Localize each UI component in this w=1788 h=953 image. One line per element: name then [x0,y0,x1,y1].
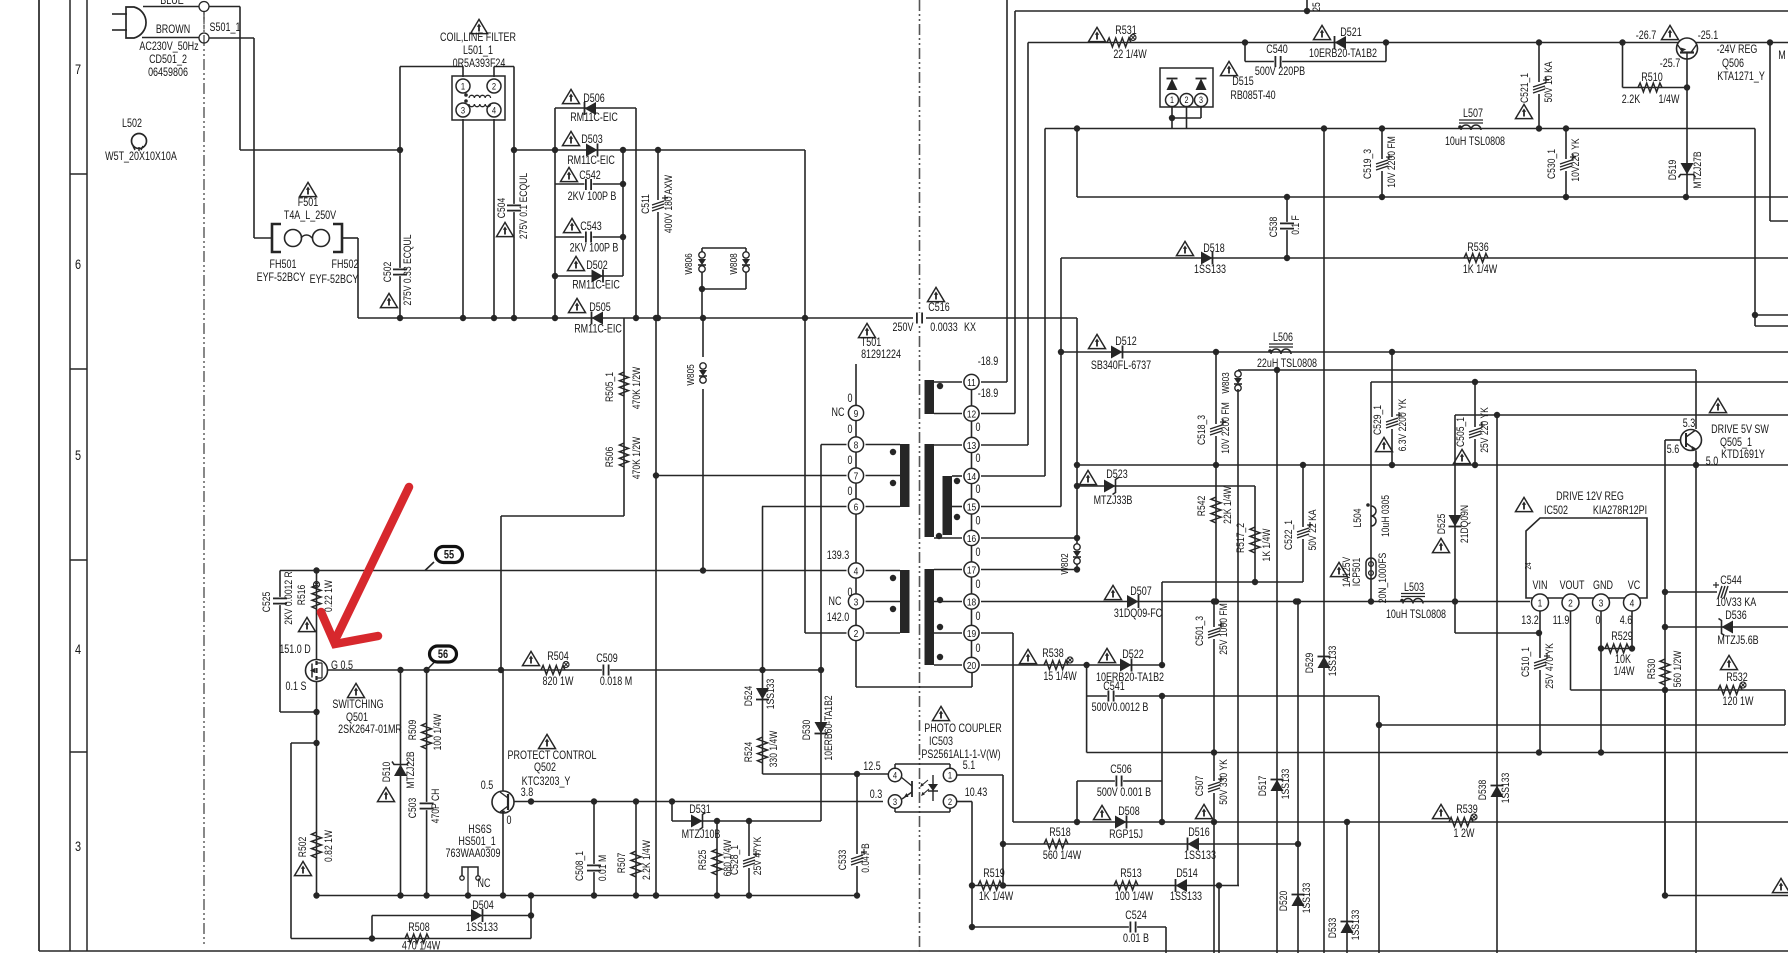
svg-text:W803: W803 [1219,372,1231,393]
svg-text:C528_1: C528_1 [729,845,741,875]
diode D506 [585,102,597,115]
transformer T501 secondary pin 15 [964,499,979,514]
svg-text:D525: D525 [1436,513,1448,534]
wire pin2 to pin20 link [856,686,972,688]
wire C538 column [1286,197,1288,258]
label 500V 220PB [1255,66,1305,78]
svg-text:2SK2647-01MR: 2SK2647-01MR [338,724,402,736]
wire W802 column [1076,318,1078,545]
wire GND column [1600,611,1602,753]
label AC230V_50Hz [139,41,198,53]
junction [1074,535,1080,541]
junction [653,892,659,898]
svg-text:R518: R518 [1049,827,1071,839]
junction [1389,462,1395,468]
svg-text:R502: R502 [297,837,309,858]
svg-text:D520: D520 [1278,890,1290,911]
wire AC bottom rail [358,317,400,319]
label Q501 [346,712,368,724]
plug prong [112,29,127,31]
junction [714,818,720,824]
svg-text:1K 1/4W: 1K 1/4W [979,891,1014,903]
svg-text:4: 4 [893,770,897,781]
label C533 [837,849,849,870]
svg-text:25: 25 [1311,2,1323,12]
label L503 [1404,582,1424,594]
fusible mark R504 [563,662,569,668]
label 25 (cut) [1311,2,1323,12]
label 10K [1615,654,1631,666]
label D505 [589,302,611,314]
label L507 [1463,108,1483,120]
junction [1619,39,1625,45]
svg-text:FH501: FH501 [270,259,297,271]
svg-text:D519: D519 [1667,159,1679,180]
wire bus y382 [1371,381,1788,383]
label BLUE [160,0,184,7]
wire top stub [1306,0,1308,11]
junction [1379,125,1385,131]
IC503 LED [921,775,938,801]
svg-text:C509: C509 [596,653,618,665]
wire C541 left leg [1086,665,1088,753]
label R524 [743,741,755,762]
svg-text:50V 330 YK: 50V 330 YK [1218,759,1230,805]
wire pin17 net [981,569,1077,571]
label 0 [507,815,512,827]
warning mark F501 [300,182,317,196]
junction [759,667,765,673]
capacitor C504 [507,204,521,212]
svg-text:C508_1: C508_1 [574,851,586,881]
label FH501 [270,259,297,271]
wire C519_3 column [1381,129,1383,198]
bridge pin 1 [1166,94,1179,107]
svg-text:3.8: 3.8 [521,787,534,799]
warning mark R539 [1433,804,1450,818]
svg-text:R516: R516 [296,584,308,605]
label C504 [496,197,508,218]
junction [1074,566,1080,572]
label 0.1 F [1290,215,1302,235]
label R517_2 [1235,523,1247,553]
junction [1662,624,1668,630]
wire W802 column [1076,563,1078,570]
svg-text:15: 15 [967,501,976,513]
wire pin8/D530 column [820,445,822,701]
label R505_1 [604,372,616,402]
svg-text:W808: W808 [727,253,739,274]
wire bus y258 [1061,257,1788,259]
svg-text:C506: C506 [1110,764,1132,776]
junction [1159,693,1165,699]
svg-text:25V 47YK: 25V 47YK [752,836,764,875]
label 0.01 B [1123,933,1149,945]
wire C530_1 column [1565,129,1567,198]
svg-text:Q502: Q502 [534,762,556,774]
label L501_1 [463,45,493,57]
label KTC3203_Y [522,776,571,788]
junction [591,892,597,898]
junction [969,882,975,888]
wire pin20 to winding [934,664,962,666]
wire R510 left leg [1622,43,1624,88]
label R542 [1196,496,1208,517]
junction [528,912,534,918]
label 10.43 [965,787,988,799]
AC plug CD501_2 [126,7,146,38]
wire pin19 column [1012,633,1014,822]
svg-text:COIL,LINE FILTER: COIL,LINE FILTER [440,32,516,44]
wire Q505 base link [1665,439,1681,441]
svg-text:S501_1: S501_1 [210,22,241,34]
label 5.3 [1683,418,1696,430]
label RM11C-EIC [572,280,620,292]
label 2SK2647-01MR [338,724,402,736]
transformer T501 secondary pin 12 [964,406,979,421]
svg-text:Q506: Q506 [1722,58,1744,70]
label D520 [1278,890,1290,911]
warning mark D507 [1105,585,1122,599]
frame row divider [70,559,87,561]
wire W806 box bottom [702,288,746,290]
svg-text:10V 2200 FM: 10V 2200 FM [1220,402,1232,453]
svg-text:ICP501: ICP501 [1351,558,1363,587]
label EYF-52BCY [310,274,359,286]
diode D505 [592,312,604,325]
junction [1159,819,1165,825]
junction [1295,598,1301,604]
wire pin2 to winding [866,632,901,634]
wire pin12 net [981,413,1015,415]
wire AC rail top [240,149,400,151]
wire R502 column [316,743,318,896]
jumper W805 [699,363,707,383]
svg-text:R505_1: R505_1 [604,372,616,402]
transformer T501 primary pin 7 [848,468,863,483]
T501 primary winding bar [900,570,910,633]
wire C540 right leg [1385,43,1387,62]
label 81291224 [861,349,901,361]
wire bus y197 [1077,196,1788,198]
label R502 [297,837,309,858]
svg-text:3: 3 [854,596,859,608]
label D536 [1725,610,1747,622]
wire pin2 net [805,632,847,634]
wire VIN column [1539,611,1541,753]
wire W803 column top [1237,370,1239,373]
svg-text:0.22 1W: 0.22 1W [323,579,335,612]
wire primary source rail [317,895,858,897]
label C544 [1720,575,1742,587]
svg-text:0: 0 [848,455,853,467]
svg-text:50V 22 KA: 50V 22 KA [1307,509,1319,550]
transformer T501 primary pin 4 [848,563,863,578]
svg-text:330 1/4W: 330 1/4W [768,730,780,767]
wire C541 net [1087,695,1162,697]
svg-text:-25.1: -25.1 [1698,30,1719,42]
junction [1295,841,1301,847]
label 139.3 [827,550,850,562]
wire D523 net [1077,485,1255,487]
junction [1211,749,1217,755]
label 24 [1523,562,1533,570]
junction [423,667,429,673]
label C541 [1103,681,1125,693]
label -25.7 [1660,58,1681,70]
svg-text:0.3: 0.3 [870,789,883,801]
wire D520 column [1297,602,1299,953]
svg-text:C501_3: C501_3 [1194,616,1206,646]
svg-text:6.3V 2200 YK: 6.3V 2200 YK [1397,398,1409,451]
junction [1074,819,1080,825]
wire x1696 long column [1695,465,1697,953]
junction [500,892,506,898]
junction [1169,115,1175,121]
capacitor C508_1 [587,864,601,872]
resistor R507 [631,851,641,877]
label D522 [1122,649,1144,661]
node 55 [436,547,463,563]
wire plug to switch (blue) [143,6,199,8]
label 0.82 1W [323,829,335,862]
svg-text:20: 20 [967,660,976,672]
fusible mark R532 [1740,682,1746,688]
wire W808 stub [745,248,747,253]
label 680 1/4W [722,839,734,876]
junction [1321,125,1327,131]
junction [528,892,534,898]
junction [491,315,497,321]
svg-text:22K 1/4W: 22K 1/4W [1222,486,1234,524]
wire D533 column [1346,822,1348,953]
junction [1693,462,1699,468]
node 56 lead [427,662,435,671]
label 560 1/4W [1043,850,1082,862]
label 1SS133 [1170,891,1202,903]
junction [818,667,824,673]
label 5.6 [1667,444,1680,456]
heat sink HS501_1 [460,867,480,896]
wire filter right column [513,67,515,319]
wire pin1 column [1002,775,1004,886]
label GND [1593,580,1613,592]
label 1SS133 [1184,850,1216,862]
wire pin12 column [1014,11,1016,414]
wire D529 column [1323,129,1325,953]
svg-text:56: 56 [438,649,448,661]
junction [552,273,558,279]
label 4.6 [1620,615,1633,627]
label 1/4W [1659,94,1680,106]
wire R509/C503 column [426,670,428,896]
red annotation arrow [321,487,409,644]
label -24V REG [1717,44,1758,56]
svg-text:Q505_1: Q505_1 [1720,437,1752,449]
svg-text:25V 470 YK: 25V 470 YK [1544,643,1556,689]
svg-text:0.5: 0.5 [481,780,494,792]
svg-text:EYF-52BCY: EYF-52BCY [257,272,306,284]
junction [854,771,860,777]
wire pin20 stub [971,672,973,687]
capacitor C544 [1713,582,1729,599]
label 0 [848,455,853,467]
junction [397,892,403,898]
wire W803 column bottom corner [1238,885,1239,887]
wire C525 column [279,571,281,713]
winding polarity dot [890,575,896,581]
frame row divider [70,751,87,753]
wire R529 link [1601,648,1632,650]
junction [1598,645,1604,651]
capacitor C502 [393,268,407,276]
resistor R509 [422,723,432,749]
label NC [832,407,845,419]
label D507 [1130,586,1152,598]
wire R531 bus y42.5 [1028,42,1788,44]
wire pin8 net [821,444,847,446]
label 0.01 M [597,855,609,881]
svg-text:0: 0 [976,422,981,434]
fuse holder FH501 bracket [272,224,281,252]
label 0.1 S [286,681,307,693]
winding polarity dot [937,624,943,630]
label HS501_1 [458,836,496,848]
wire pin11 to winding [934,381,962,383]
svg-text:1: 1 [1538,597,1543,609]
label DRIVE 12V REG [1556,491,1624,503]
wire Q502 emitter [502,813,504,896]
wire Q502 collector [502,670,504,791]
resistor R529 [1605,644,1629,653]
transformer T501 secondary pin 19 [964,625,979,640]
transformer T501 secondary pin 20 [964,657,979,672]
label C501_3 [1194,616,1206,646]
IC503 pin 4 [888,768,901,781]
junction [700,567,706,573]
wire to fuse holder [254,237,272,239]
label 100 1/4W [432,713,444,750]
svg-text:0: 0 [1596,615,1601,627]
capacitor C533 [850,849,867,866]
svg-text:470K 1/2W: 470K 1/2W [631,436,643,479]
frame row label 7 [75,62,81,78]
svg-text:R508: R508 [408,922,430,934]
junction [1536,749,1542,755]
IC502 pin 1 [1532,594,1549,611]
capacitor C510_1 [1533,653,1550,670]
wire plug to switch (brown) [142,37,199,39]
wire source left link [291,742,317,744]
svg-text:2KV 100P B: 2KV 100P B [570,243,619,255]
IC502 pin 3 [1593,594,1610,611]
svg-text:500V 0.001 B: 500V 0.001 B [1097,787,1151,799]
wire C543 link [555,236,623,238]
wire pin6 to D524 column [762,507,764,671]
capacitor C503 [420,802,434,810]
svg-text:10V220 YK: 10V220 YK [1570,138,1582,182]
svg-text:6: 6 [854,501,859,513]
svg-text:3: 3 [75,839,81,855]
wire VOUT to R532 net [1571,689,1666,691]
wire R532 right corner [1784,690,1786,725]
transformer T501 secondary pin 14 [964,468,979,483]
svg-text:D538: D538 [1477,779,1489,800]
svg-text:C505_1: C505_1 [1455,417,1467,447]
zener D519 [1679,163,1696,178]
filter pin 3 [456,103,470,117]
MOSFET Q501 2SK2647 [306,660,328,682]
junction [854,892,860,898]
label C521_1 [1519,73,1531,103]
label VIN [1533,580,1548,592]
label KIA278R12PI [1593,505,1647,517]
svg-text:R513: R513 [1120,868,1142,880]
warning mark D521 [1314,25,1331,39]
svg-text:L506: L506 [1273,332,1293,344]
svg-text:0: 0 [976,484,981,496]
wire pin18 net (D507) [981,601,1530,603]
wire pin20 net (R538/D522) [981,664,1087,666]
transformer T501 primary pin 2 [848,625,863,640]
diode D530 [815,722,828,734]
junction [1472,379,1478,385]
label C538 [1268,216,1280,237]
svg-text:EYF-52BCY: EYF-52BCY [310,274,359,286]
label 15 1/4W [1043,671,1077,683]
svg-text:4: 4 [1630,597,1635,609]
transformer T501 secondary pin 17 [964,562,979,577]
label 0 [848,424,853,436]
switch S501_1 contact [199,2,209,12]
zener D510 [392,762,409,777]
warning mark C507 [1196,804,1213,818]
label D538 [1477,779,1489,800]
label KTD1691Y [1721,449,1765,461]
svg-text:1: 1 [1170,96,1174,106]
wire fuse to corner [342,237,358,239]
junction [397,667,403,673]
label 151.0 D [279,644,310,656]
junction [1074,462,1080,468]
capacitor C524 [1129,922,1137,933]
capacitor C509 [602,665,610,676]
fuse ICP501 [1366,558,1376,579]
IC503 pin 3 [888,795,901,808]
wire R517_2 column [1254,486,1256,582]
warning mark ICP501 [1331,562,1348,576]
wire D504 right link [530,896,532,939]
wire bus y752.5 [1087,752,1788,754]
winding polarity dot [890,480,896,486]
svg-text:24: 24 [1523,562,1533,570]
transformer T501 primary pin 9 [848,405,863,420]
svg-text:RM11C-EIC: RM11C-EIC [570,112,618,124]
svg-text:12.5: 12.5 [863,761,881,773]
label -25.1 [1698,30,1719,42]
wire pin3 to winding [866,601,901,603]
junction [1383,39,1389,45]
label 142.0 [827,612,850,624]
svg-text:D531: D531 [689,804,711,816]
junction [669,798,675,804]
label C519_3 [1362,149,1374,179]
resistor R505_1 [620,372,629,396]
capacitor C518_3 [1209,419,1226,436]
svg-text:55: 55 [444,550,454,562]
label 25V 470 YK [1544,643,1556,689]
svg-text:2: 2 [948,796,952,807]
